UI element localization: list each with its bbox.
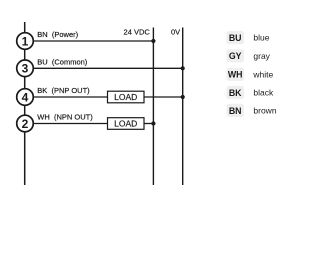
pin 4 (BK) [17,89,34,106]
svg-text:3: 3 [22,62,29,76]
wire: load2 to 24VDC rail [144,123,153,125]
svg-text:1: 1 [22,34,29,48]
svg-text:LOAD: LOAD [114,119,137,129]
load L1 (PNP) [108,91,145,103]
wire: BK PNP out to load [25,96,108,98]
legend chip BN [227,104,245,117]
junction: BU to 0V [181,66,185,70]
junction: load1 to 0V [181,95,185,99]
legend chip BK [227,86,245,99]
load L2 (NPN) [108,118,145,130]
wire: 0V rail [182,28,184,186]
svg-text:0V: 0V [171,28,180,37]
legend chip BU [227,31,245,44]
junction: BN to 24VDC [151,39,155,43]
svg-text:LOAD: LOAD [114,92,137,102]
pin 3 (BU) [17,60,34,77]
svg-text:4: 4 [22,90,29,104]
svg-text:BN (Power): BN (Power) [37,30,78,39]
legend chip WH [227,68,245,81]
svg-text:2: 2 [22,117,29,131]
svg-text:BU: BU [229,33,242,43]
wire: 24 VDC rail [152,28,154,186]
svg-text:BK: BK [229,88,242,98]
wire: left vertical bus [24,22,26,185]
svg-text:GY: GY [229,51,242,61]
svg-text:WH: WH [228,70,243,80]
pin 2 (WH) [17,115,34,132]
wire: load1 to 0V rail [144,96,183,98]
pin 1 (BN) [17,33,34,50]
legend chip GY [227,49,245,62]
svg-text:BU (Common): BU (Common) [37,57,88,66]
svg-text:BN: BN [229,106,242,116]
wire: BU common horizontal [25,67,183,69]
svg-text:WH (NPN OUT): WH (NPN OUT) [37,113,93,122]
svg-text:gray: gray [253,51,270,61]
wire: BN power horizontal [25,40,153,42]
svg-text:BK (PNP OUT): BK (PNP OUT) [37,86,90,95]
svg-text:24 VDC: 24 VDC [124,28,151,37]
svg-text:black: black [253,88,274,98]
svg-text:brown: brown [253,106,276,116]
svg-text:blue: blue [253,33,269,43]
wire: WH NPN out to load [25,123,108,125]
svg-text:white: white [252,69,273,79]
junction: load2 to 24VDC [151,121,155,125]
